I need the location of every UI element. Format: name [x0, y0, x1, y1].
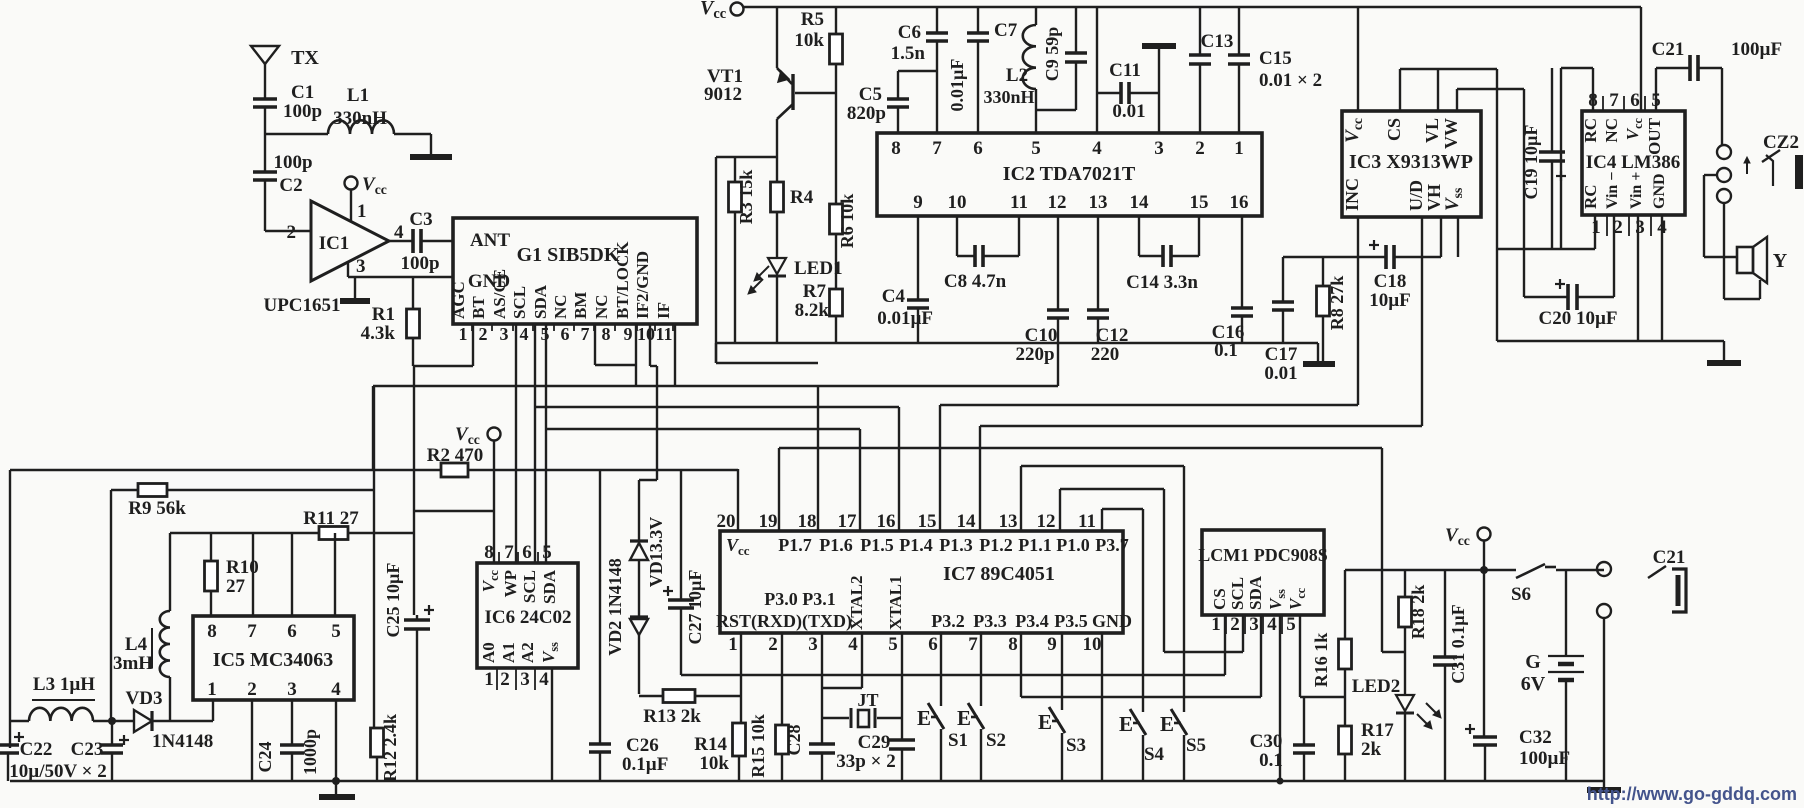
Vcc top rail wire	[744, 6, 1641, 8]
wire R12 column	[373, 386, 375, 728]
ground (IC2 rail)	[1303, 361, 1335, 367]
svg-text:R13 2k: R13 2k	[643, 706, 701, 727]
wire IF bus (line B)	[373, 385, 1058, 387]
op-amp IC1 UPC1651	[311, 201, 389, 281]
svg-text:3: 3	[1249, 614, 1259, 635]
svg-text:INC: INC	[1342, 178, 1362, 211]
capacitor C12 220	[1097, 216, 1099, 310]
resistor R8 27k	[1322, 257, 1324, 286]
svg-text:BM: BM	[571, 292, 590, 319]
svg-text:S4: S4	[1144, 744, 1165, 765]
wire G1 pin1 AGC to R1	[472, 324, 474, 366]
IC G1 SIB5DK	[453, 218, 697, 324]
svg-text:4: 4	[539, 669, 549, 690]
resistor R15 10k	[776, 725, 789, 754]
wire IC7 pin3 XTAL2 to C28	[821, 633, 823, 744]
svg-text:C21: C21	[1653, 547, 1686, 568]
svg-text:0.01: 0.01	[1112, 101, 1145, 122]
svg-text:P1.7: P1.7	[778, 535, 812, 555]
svg-text:16: 16	[877, 511, 896, 532]
IC IC6 24C02	[477, 563, 578, 668]
wire RST/CS bus	[741, 674, 1225, 676]
svg-text:4: 4	[848, 634, 858, 655]
ground (bottom right)	[1603, 781, 1605, 788]
wire Vcc down to C32	[1483, 541, 1485, 737]
svg-text:27: 27	[226, 576, 246, 597]
resistor R9 56k	[111, 489, 138, 491]
svg-text:7: 7	[247, 621, 257, 642]
svg-text:5: 5	[331, 621, 341, 642]
svg-text:11: 11	[1078, 511, 1096, 532]
svg-text:IC3 X9313WP: IC3 X9313WP	[1349, 151, 1473, 173]
wire LCM1 SCL stub	[1242, 615, 1244, 652]
capacitor C30 0.1	[1303, 697, 1305, 745]
svg-text:C26: C26	[626, 735, 659, 756]
ground rail (IC4)	[1497, 340, 1724, 342]
capacitor C15 0.01x2	[1238, 7, 1240, 55]
svg-text:JT: JT	[857, 690, 878, 710]
capacitor C3	[411, 229, 415, 253]
capacitor C31 0.1uF	[1444, 570, 1446, 657]
svg-text:IF: IF	[654, 302, 673, 319]
wire VD3 to IC5 pin1	[212, 700, 214, 721]
svg-text:SCL: SCL	[510, 286, 529, 319]
switch S5	[1183, 466, 1185, 712]
svg-text:G1 SIB5DK: G1 SIB5DK	[517, 244, 620, 266]
svg-text:15: 15	[918, 511, 937, 532]
wire IF bus to IC7 P1.6	[817, 386, 819, 531]
svg-text:SDA: SDA	[540, 569, 559, 604]
svg-text:2: 2	[768, 634, 778, 655]
resistor R2 470	[441, 463, 468, 477]
capacitor C11 0.01	[1097, 92, 1121, 94]
resistor R18 2k	[1404, 570, 1406, 597]
svg-text:100µF: 100µF	[1519, 748, 1570, 769]
capacitor C19 10uF	[1551, 68, 1553, 152]
svg-text:C8 4.7n: C8 4.7n	[944, 271, 1007, 292]
svg-text:10: 10	[637, 324, 655, 344]
svg-text:9: 9	[1047, 634, 1057, 655]
junction dot (Vss rail)	[1277, 778, 1284, 785]
wire LCM1 Vcc jog	[1299, 615, 1301, 697]
svg-text:10: 10	[948, 192, 967, 213]
svg-text:C18: C18	[1374, 271, 1407, 292]
wire G1 pin9 to IF bus	[635, 365, 637, 386]
svg-text:VD13.3V: VD13.3V	[646, 517, 666, 588]
wire G1 pin3 to IC6 WP	[515, 324, 517, 563]
svg-text:4: 4	[331, 679, 341, 700]
svg-text:C31 0.1µF: C31 0.1µF	[1448, 604, 1468, 683]
svg-text:RST(RXD)(TXD): RST(RXD)(TXD)	[716, 611, 852, 632]
wire IC7 P1.7 to bus	[778, 448, 780, 531]
svg-text:17: 17	[838, 511, 858, 532]
wire IC4 pin2 Vin- down	[1613, 215, 1615, 297]
wire IC7 pin20 Vcc	[737, 469, 739, 531]
capacitor C14 3.3n	[1138, 216, 1140, 256]
wire SCL bus riser to IC7 P1.5	[898, 407, 900, 531]
resistor R6 10k	[835, 93, 837, 204]
phone jack CZ2	[1717, 145, 1731, 159]
svg-text:AGC: AGC	[449, 281, 468, 319]
wire Vcc distribution line	[1345, 569, 1516, 571]
wire R2 Vcc line	[10, 469, 441, 471]
svg-text:P3.7: P3.7	[1095, 535, 1129, 555]
svg-text:IC1: IC1	[319, 233, 350, 254]
svg-text:P3.4: P3.4	[1015, 611, 1049, 631]
svg-text:R12 2.4k: R12 2.4k	[380, 714, 400, 782]
svg-text:10µF: 10µF	[1369, 290, 1411, 311]
svg-text:SCL: SCL	[520, 570, 539, 603]
resistor R3 15k	[734, 157, 736, 182]
svg-text:19: 19	[759, 511, 778, 532]
wire LCM1 SDA stub	[1260, 615, 1262, 697]
svg-text:R1: R1	[372, 304, 395, 325]
wire IC5 pin2 to rail	[251, 700, 253, 781]
capacitor C16 0.1	[1241, 216, 1243, 308]
svg-text:R11 27: R11 27	[303, 508, 359, 529]
svg-text:SDA: SDA	[1246, 575, 1265, 610]
svg-text:L1: L1	[347, 85, 369, 106]
svg-text:2k: 2k	[1361, 739, 1382, 760]
ground rail under IC2	[716, 342, 1318, 344]
svg-text:9012: 9012	[704, 84, 742, 105]
svg-text:CZ2: CZ2	[1763, 132, 1799, 153]
svg-text:XTAL1: XTAL1	[886, 576, 905, 630]
svg-text:A2: A2	[518, 642, 537, 663]
ground rail (bottom)	[10, 780, 1604, 782]
LED LED1	[776, 212, 778, 258]
resistor R10 27	[210, 533, 212, 561]
svg-text:6: 6	[973, 138, 983, 159]
diode VD2 1N4148	[630, 615, 648, 618]
svg-text:C11: C11	[1109, 60, 1141, 81]
svg-text:1: 1	[1211, 614, 1221, 635]
svg-text:P1.1: P1.1	[1018, 535, 1052, 555]
wire IC7 pin11 hook to S4	[1101, 509, 1103, 531]
svg-text:1: 1	[459, 324, 468, 344]
svg-text:R16 1k: R16 1k	[1311, 633, 1331, 688]
svg-text:1.5n: 1.5n	[891, 43, 926, 64]
svg-text:LCM1 PDC908S: LCM1 PDC908S	[1198, 545, 1328, 565]
svg-text:4: 4	[1267, 614, 1277, 635]
svg-text:R2 470: R2 470	[427, 445, 483, 466]
wire IC7 pin10 to rail	[1101, 633, 1103, 781]
wire C10 column to IF bus	[1057, 343, 1059, 386]
svg-text:G: G	[1525, 651, 1541, 673]
svg-text:R4: R4	[790, 187, 814, 208]
svg-text:CS: CS	[1210, 588, 1229, 610]
svg-text:1: 1	[357, 201, 367, 222]
wire R11 line to C25	[413, 533, 415, 615]
svg-text:1000p: 1000p	[300, 729, 320, 775]
svg-text:3: 3	[1154, 138, 1164, 159]
svg-text:0.1: 0.1	[1259, 750, 1283, 771]
inductor L4 3mH	[160, 611, 170, 677]
svg-text:C25 10µF: C25 10µF	[383, 563, 403, 638]
switch S3	[1061, 633, 1063, 710]
svg-text:LED2: LED2	[1352, 676, 1401, 697]
svg-text:14: 14	[1130, 192, 1150, 213]
resistor R11 27	[170, 532, 319, 534]
wire left edge drop	[9, 470, 11, 748]
svg-text:3: 3	[500, 324, 509, 344]
svg-text:1N4148: 1N4148	[152, 731, 213, 752]
svg-text:C17: C17	[1265, 344, 1298, 365]
svg-text:OUT: OUT	[1645, 117, 1664, 155]
svg-text:P1.5: P1.5	[860, 535, 894, 555]
wire G1 pin5 SDA to IC6 SDA	[545, 324, 547, 563]
svg-text:R9 56k: R9 56k	[128, 498, 186, 519]
svg-text:C7: C7	[994, 20, 1018, 41]
svg-text:13: 13	[999, 511, 1018, 532]
wire IC3 CS/VL loop	[1399, 69, 1401, 111]
svg-text:VH: VH	[1424, 184, 1444, 211]
battery G 6V	[1565, 570, 1567, 655]
svg-text:BT: BT	[469, 296, 488, 319]
svg-text:IF2/GND: IF2/GND	[633, 251, 652, 319]
svg-text:C28: C28	[784, 725, 804, 756]
svg-text:C21: C21	[1652, 39, 1685, 60]
svg-text:C22: C22	[20, 739, 53, 760]
svg-text:P3.3: P3.3	[973, 611, 1007, 631]
svg-text:100p: 100p	[283, 101, 322, 122]
svg-text:P3.2: P3.2	[931, 611, 965, 631]
resistor R14 10k	[733, 723, 746, 756]
wire bus riser to LED2 node	[1381, 448, 1383, 652]
capacitor C13	[1199, 7, 1201, 55]
capacitor C20 10uF	[1524, 296, 1568, 298]
svg-text:IC5 MC34063: IC5 MC34063	[213, 649, 334, 671]
svg-text:10k: 10k	[699, 753, 729, 774]
svg-text:3: 3	[520, 669, 530, 690]
svg-text:R8 27k: R8 27k	[1327, 276, 1347, 331]
wire G1 pin4 SCL to IC6 SCL	[534, 324, 536, 563]
svg-text:http://www.go-gddq.com: http://www.go-gddq.com	[1587, 784, 1797, 804]
wire IC1 pin3 GND line 100p	[348, 276, 453, 278]
switch S2	[980, 633, 982, 706]
svg-text:C6: C6	[898, 22, 921, 43]
wire IC3 INC to bus	[1357, 217, 1359, 405]
svg-text:C4: C4	[882, 286, 906, 307]
svg-text:RC: RC	[1581, 118, 1600, 143]
junction dot (Vcc rail)	[1480, 566, 1488, 574]
svg-text:E: E	[1160, 712, 1174, 736]
svg-text:IC2 TDA7021T: IC2 TDA7021T	[1003, 163, 1136, 185]
wire R9 left column	[110, 490, 112, 718]
wire C2 to IC1 pin2	[264, 180, 266, 231]
svg-text:U/D: U/D	[1406, 180, 1426, 211]
svg-text:E: E	[957, 706, 971, 730]
switch S6	[1516, 564, 1545, 578]
capacitor C7 0.01uF	[977, 7, 979, 33]
svg-text:15: 15	[1190, 192, 1209, 213]
svg-text:2: 2	[479, 324, 488, 344]
wire jack to speaker	[1703, 175, 1705, 257]
svg-text:IC4 LM386: IC4 LM386	[1586, 152, 1680, 173]
svg-text:20: 20	[717, 511, 736, 532]
zener diode VD1 3.3V	[638, 480, 640, 541]
svg-text:C9 59p: C9 59p	[1042, 27, 1062, 82]
capacitor C24 1000p	[291, 700, 293, 745]
svg-text:0.1µF: 0.1µF	[622, 754, 668, 775]
wire C21 to jack CZ2	[1721, 68, 1723, 146]
svg-text:S1: S1	[948, 730, 968, 751]
capacitor C21 100uF	[1655, 68, 1657, 111]
wire VT1 base to R5/R6	[795, 92, 836, 94]
svg-text:3: 3	[356, 256, 366, 277]
capacitor C8 4.7n	[956, 216, 958, 256]
svg-text:9: 9	[624, 324, 633, 344]
wire L1 to ground	[394, 133, 431, 135]
wire LCM1 Vss to rail	[1279, 615, 1281, 781]
svg-text:C19 10µF: C19 10µF	[1521, 125, 1541, 200]
svg-text:NC: NC	[1602, 118, 1621, 143]
svg-text:VD2 1N4148: VD2 1N4148	[605, 558, 625, 656]
svg-text:14: 14	[957, 511, 977, 532]
svg-text:1: 1	[728, 634, 738, 655]
speaker Y	[1737, 247, 1753, 273]
svg-text:7: 7	[1609, 90, 1619, 111]
svg-text:220p: 220p	[1015, 344, 1054, 365]
capacitor C9 59p	[1075, 7, 1077, 53]
svg-text:R5: R5	[801, 9, 824, 30]
svg-text:Vin +: Vin +	[1628, 172, 1645, 209]
svg-text:16: 16	[1230, 192, 1249, 213]
wire C27 to RST node	[681, 674, 741, 676]
wire SDA bus riser to IC7 P1.4	[859, 429, 861, 531]
ground (IC1 pin3)	[354, 277, 356, 299]
svg-text:E: E	[1119, 712, 1133, 736]
LED LED2	[1396, 695, 1414, 711]
inductor L1 330nH	[328, 120, 394, 134]
wire IC5 pin7 riser	[252, 533, 254, 616]
svg-text:2: 2	[1195, 138, 1205, 159]
svg-text:Y: Y	[1773, 250, 1788, 272]
resistor R1 4.3k	[412, 277, 414, 309]
capacitor C26 0.1uF	[599, 470, 601, 744]
svg-text:9: 9	[913, 192, 923, 213]
svg-text:P1.0: P1.0	[1056, 535, 1090, 555]
svg-text:5: 5	[542, 542, 552, 563]
svg-text:GND: GND	[1651, 173, 1668, 209]
wire IC5 pin4 to rail	[335, 700, 337, 781]
svg-text:P1.4: P1.4	[899, 535, 933, 555]
capacitor C29 33p x2	[889, 738, 915, 742]
wire jack sleeve to speaker	[1723, 203, 1725, 299]
svg-text:C3: C3	[409, 209, 432, 230]
resistor R4	[776, 157, 778, 182]
svg-text:C13: C13	[1201, 31, 1234, 52]
svg-text:VD3: VD3	[126, 688, 163, 709]
svg-text:CS: CS	[1384, 118, 1404, 141]
svg-text:0.01µF: 0.01µF	[877, 308, 933, 329]
svg-text:4.3k: 4.3k	[361, 323, 396, 344]
svg-text:C24: C24	[255, 742, 275, 773]
wire IC7 pin1 RST to R14	[740, 633, 742, 723]
Vcc terminal (IC1)	[345, 177, 358, 190]
svg-text:8: 8	[484, 542, 494, 563]
wire IC1 pin4 to C3	[389, 240, 413, 242]
capacitor C25 10uF	[416, 615, 418, 620]
svg-text:C32: C32	[1519, 727, 1552, 748]
antenna TX	[251, 46, 279, 64]
wire IC4 pin8 RC loop	[1592, 68, 1594, 111]
wire IC5 pin6 riser	[291, 533, 293, 616]
svg-text:6: 6	[287, 621, 297, 642]
svg-text:IC7 89C4051: IC7 89C4051	[943, 563, 1055, 585]
wire IC3 Vss riser	[1457, 217, 1459, 257]
capacitor C2 100p	[264, 134, 266, 172]
junction dot (IC5 pin4 rail)	[332, 777, 340, 785]
wire AGC column to R2 line	[413, 366, 415, 533]
wire IC3 Vcc to rail	[1357, 7, 1359, 111]
svg-text:5: 5	[888, 634, 898, 655]
svg-text:0.01µF: 0.01µF	[947, 59, 967, 112]
svg-text:R3 15k: R3 15k	[736, 170, 756, 225]
svg-text:12: 12	[1037, 511, 1056, 532]
wire IC4 pin4 GND down	[1661, 215, 1663, 341]
svg-text:11: 11	[1010, 192, 1028, 213]
capacitor C32 100uF	[1473, 735, 1497, 739]
capacitor C5 820p	[898, 70, 937, 72]
wire IC6 Vss to rail	[551, 668, 553, 781]
svg-text:WP: WP	[501, 570, 520, 597]
svg-text:S3: S3	[1066, 735, 1086, 756]
IC IC2 TDA7021T	[877, 133, 1262, 216]
svg-text:A0: A0	[479, 642, 498, 663]
svg-text:AS/CE: AS/CE	[490, 269, 509, 319]
svg-text:4: 4	[1092, 138, 1102, 159]
svg-text:2: 2	[1230, 614, 1240, 635]
svg-text:C5: C5	[859, 84, 882, 105]
svg-text:2: 2	[247, 679, 257, 700]
svg-text:C2: C2	[279, 175, 302, 196]
resistor R12 2.4k	[371, 728, 384, 757]
switch S1	[940, 633, 942, 706]
svg-text:6: 6	[522, 542, 532, 563]
svg-text:C27 10µF: C27 10µF	[685, 570, 705, 645]
svg-text:6: 6	[1630, 90, 1640, 111]
crystal JT	[822, 717, 849, 719]
svg-text:LED1: LED1	[794, 258, 843, 279]
svg-text:S5: S5	[1186, 735, 1206, 756]
capacitor C27 10uF	[680, 470, 682, 600]
Vcc terminal (bottom right)	[1478, 528, 1491, 541]
svg-text:8: 8	[891, 138, 901, 159]
svg-text:NC: NC	[592, 294, 611, 319]
wire IC4 pin1 RC down	[1594, 215, 1596, 249]
svg-text:8.2k: 8.2k	[795, 300, 830, 321]
wire G1 pin10 to zener VD1	[649, 324, 651, 366]
inductor L2 330nH	[1023, 25, 1036, 89]
wire IC7 pin2 to R15	[781, 633, 783, 725]
svg-text:10k: 10k	[794, 30, 824, 51]
svg-text:L3 1µH: L3 1µH	[33, 674, 95, 695]
wire S6 to jack	[1556, 569, 1604, 571]
svg-text:3: 3	[1635, 217, 1645, 238]
svg-text:5: 5	[1286, 614, 1296, 635]
capacitor C6 1.5n	[936, 7, 938, 33]
svg-text:3mH: 3mH	[113, 653, 153, 674]
svg-text:E: E	[1038, 710, 1052, 734]
svg-text:8: 8	[1008, 634, 1018, 655]
capacitor C28	[809, 742, 835, 746]
wire Vcc to IC1 pin1	[350, 190, 352, 221]
svg-text:S6: S6	[1511, 584, 1531, 605]
capacitor C1 100p	[253, 97, 277, 101]
svg-text:C14 3.3n: C14 3.3n	[1126, 272, 1198, 293]
wire rail to ground bar	[1317, 343, 1319, 362]
